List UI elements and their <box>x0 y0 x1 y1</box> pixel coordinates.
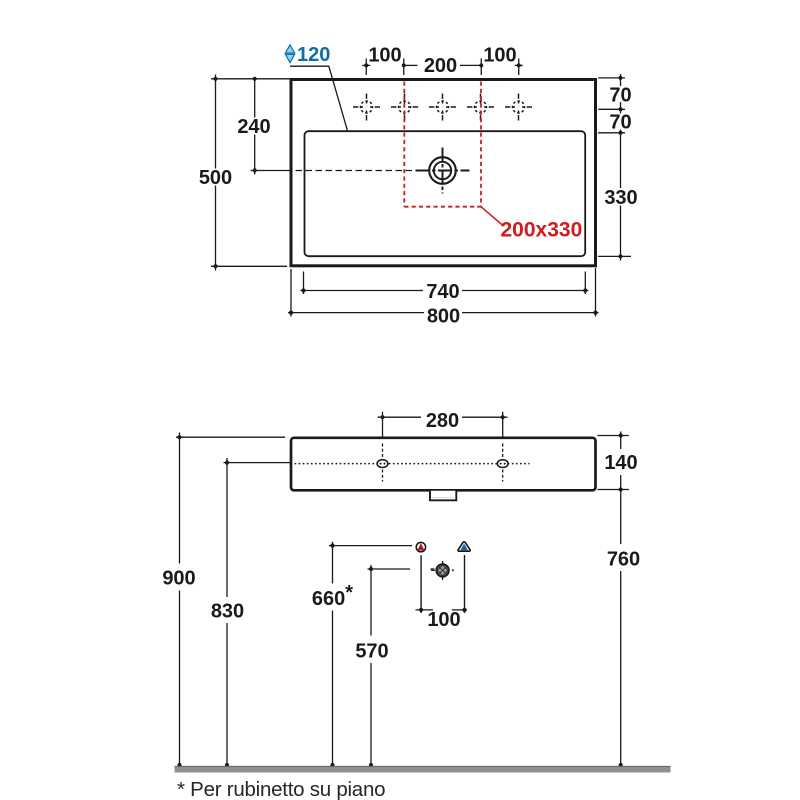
svg-text:240: 240 <box>237 116 270 138</box>
drain centerline vertical (top view) <box>442 148 444 194</box>
drain tailpiece below basin <box>430 491 456 501</box>
fixing hole left <box>377 460 388 468</box>
front centerline dotted <box>295 463 530 465</box>
svg-text:100: 100 <box>427 609 460 631</box>
svg-text:280: 280 <box>426 410 459 432</box>
svg-text:200: 200 <box>424 55 457 77</box>
faucet hole crosshair 1 <box>353 94 380 121</box>
fixing hole right <box>497 460 508 468</box>
hot water symbol (red circle) <box>416 542 425 551</box>
dimension 800 <box>288 268 599 317</box>
fixing hole right dashed axis <box>502 444 504 482</box>
dimension 570 <box>368 565 435 772</box>
basin inner bowl (top view) <box>305 131 586 256</box>
dimension 280 <box>378 412 508 438</box>
fixing hole left dashed axis <box>382 444 384 482</box>
dimension 240 (left inner) <box>251 79 292 175</box>
svg-text:570: 570 <box>355 640 388 662</box>
svg-text:740: 740 <box>426 281 459 303</box>
svg-text:830: 830 <box>211 600 244 622</box>
floor bar <box>175 766 671 773</box>
dimension 140 / 760 (right) <box>598 432 630 773</box>
blue depth symbol <box>285 45 294 63</box>
drain hole inner circle (top view) <box>434 162 451 179</box>
svg-text:70: 70 <box>609 112 631 134</box>
dimension 830 <box>224 458 291 772</box>
svg-text:70: 70 <box>609 84 631 106</box>
drain hole outer circle (top view) <box>429 157 456 184</box>
svg-text:760: 760 <box>607 548 640 570</box>
faucet hole crosshair 3 <box>429 94 456 121</box>
svg-text:800: 800 <box>427 305 460 327</box>
dimension 500 (left) <box>211 75 290 271</box>
svg-text:200x330: 200x330 <box>501 219 583 242</box>
svg-text:100: 100 <box>368 45 401 67</box>
dimension 740 <box>301 272 589 295</box>
svg-text:100: 100 <box>483 45 516 67</box>
drain centerline horizontal (top view) <box>296 170 415 172</box>
leader line for 120 <box>290 66 348 131</box>
supply pipe right <box>464 555 466 613</box>
svg-text:500: 500 <box>199 167 232 189</box>
red leader line <box>481 207 504 226</box>
basin body (front view) <box>291 438 596 491</box>
svg-text:120: 120 <box>297 44 330 66</box>
svg-text:140: 140 <box>604 452 637 474</box>
red tap zone dashed rectangle 200x330 <box>404 82 481 207</box>
faucet hole crosshair 2 <box>391 94 418 121</box>
dimension 900 (left) <box>176 433 285 773</box>
waste drain circle (front view) <box>442 561 444 564</box>
svg-text:330: 330 <box>604 187 637 209</box>
supply pipe left <box>420 555 422 613</box>
right chained dimension 70/70/330 <box>598 74 631 261</box>
top chained dimension 100/200/100 <box>362 59 523 76</box>
svg-text:* Per rubinetto su piano: * Per rubinetto su piano <box>177 778 385 800</box>
svg-text:900: 900 <box>162 567 195 589</box>
cold water symbol (blue triangle) <box>458 542 470 551</box>
dimension 100 (supply spacing) <box>416 609 468 611</box>
faucet hole crosshair 5 <box>505 94 532 121</box>
faucet hole crosshair 4 <box>467 94 494 121</box>
basin outer rim (top view) <box>291 80 596 266</box>
dimension 660* <box>329 542 412 772</box>
